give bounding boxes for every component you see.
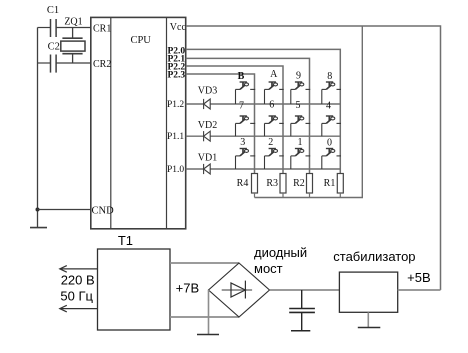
svg-text:3: 3 (240, 137, 245, 148)
resistor R1 (337, 174, 343, 194)
svg-text:6: 6 (269, 99, 274, 110)
stabilizer (339, 272, 397, 312)
key SB10 "2" (265, 149, 284, 170)
ground (crystal rail) (30, 227, 47, 229)
wire T1 secondary bottom (170, 316, 239, 318)
wire bridge left vertex to ground (208, 290, 210, 334)
svg-text:7: 7 (239, 100, 244, 111)
key SB8 "4" (322, 116, 341, 136)
wire P1 row VD1 (186, 168, 341, 170)
svg-text:R4: R4 (237, 178, 249, 189)
wire bridge output to stabilizer (270, 289, 340, 291)
svg-text:VD2: VD2 (198, 120, 217, 131)
wire R2 to rail (309, 193, 311, 198)
diode VD2 (204, 131, 211, 141)
svg-text:220 В: 220 В (61, 273, 95, 288)
wire T1 secondary top (170, 262, 239, 264)
svg-text:5: 5 (296, 100, 301, 111)
svg-text:CR1: CR1 (93, 24, 111, 35)
svg-text:VD3: VD3 (198, 85, 217, 96)
svg-text:P1.1: P1.1 (167, 132, 184, 142)
svg-text:C1: C1 (47, 5, 59, 16)
wire mains arrow bottom (60, 305, 98, 312)
wire P1 row VD2 (186, 135, 341, 137)
key SB7 "5" (291, 116, 310, 136)
wire P2.1 to column 3 (186, 58, 310, 173)
svg-text:мост: мост (254, 261, 283, 276)
key SB3 "9" (291, 82, 310, 104)
CPU U1 (91, 17, 186, 228)
wire R4 to rail (254, 193, 256, 198)
wire stabilizer to ground (367, 312, 369, 327)
svg-text:50 Гц: 50 Гц (60, 288, 93, 303)
wire resistor rail to Vcc riser (255, 26, 363, 198)
ground (stabilizer) (358, 327, 381, 329)
diode VD1 (204, 164, 211, 174)
svg-text:P2.3: P2.3 (168, 70, 186, 80)
wire CR2 (38, 62, 91, 64)
key SB6 "6" (265, 116, 284, 136)
key SB1 "В" (236, 82, 256, 104)
key SB5 "7" (236, 116, 256, 136)
svg-text:R3: R3 (266, 178, 278, 189)
key SB2 "А" (265, 82, 284, 104)
svg-text:2: 2 (268, 137, 273, 148)
wire P1 row VD3 (186, 103, 341, 105)
svg-text:T1: T1 (118, 233, 133, 248)
wire P2.0 to column 4 (186, 49, 341, 173)
diode in bridge (231, 281, 245, 299)
wire left rail to ground (37, 28, 39, 228)
capacitor C2 (51, 55, 57, 73)
diode VD3 (204, 99, 211, 109)
svg-text:C2: C2 (48, 42, 60, 53)
svg-text:А: А (270, 69, 278, 80)
wire R3 to rail (282, 193, 284, 198)
svg-text:P1.0: P1.0 (167, 165, 184, 175)
resistor R4 (252, 174, 258, 194)
svg-text:Vcc: Vcc (170, 22, 187, 33)
diode bridge (209, 263, 270, 317)
svg-text:R2: R2 (293, 178, 305, 189)
svg-text:диодный: диодный (254, 245, 307, 260)
svg-text:CND: CND (92, 206, 115, 217)
svg-text:P1.2: P1.2 (167, 100, 184, 110)
resistor R3 (280, 174, 286, 194)
svg-text:8: 8 (327, 71, 332, 82)
svg-text:+5В: +5В (407, 270, 431, 285)
ground (bridge) (197, 334, 219, 336)
svg-text:CPU: CPU (130, 35, 151, 46)
svg-text:VD1: VD1 (198, 153, 217, 164)
wire stabilizer output (398, 289, 441, 291)
ground (capacitor) (291, 330, 310, 332)
svg-text:+7В: +7В (176, 280, 200, 295)
key SB4 "8" (322, 82, 341, 104)
wire bridge internal (222, 289, 252, 291)
transformer T1 (98, 249, 171, 330)
node CND junction (36, 208, 40, 212)
key SB9 "3" (236, 149, 256, 170)
resistor R2 (307, 174, 313, 194)
svg-text:ZQ1: ZQ1 (64, 16, 82, 27)
crystal ZQ1 (61, 28, 85, 64)
capacitor filter (289, 290, 315, 331)
svg-text:стабилизатор: стабилизатор (333, 249, 415, 264)
svg-text:R1: R1 (324, 178, 336, 189)
svg-text:CR2: CR2 (93, 59, 111, 70)
wire P2.3 to column 1 (186, 74, 255, 174)
wire mains arrow top (60, 266, 98, 273)
key SB11 "1" (291, 149, 310, 170)
svg-text:9: 9 (296, 71, 301, 82)
key SB12 "0" (322, 149, 341, 170)
wire R1 to rail (339, 193, 341, 198)
wire Vcc to +5V riser (186, 26, 441, 290)
svg-text:В: В (238, 71, 245, 82)
svg-text:0: 0 (327, 138, 332, 149)
wire CND (38, 209, 91, 211)
svg-text:1: 1 (298, 137, 303, 148)
capacitor C1 (51, 19, 57, 37)
svg-text:4: 4 (326, 101, 331, 112)
wire CR1 (38, 27, 91, 29)
wire P2.2 to column 2 (186, 66, 283, 174)
